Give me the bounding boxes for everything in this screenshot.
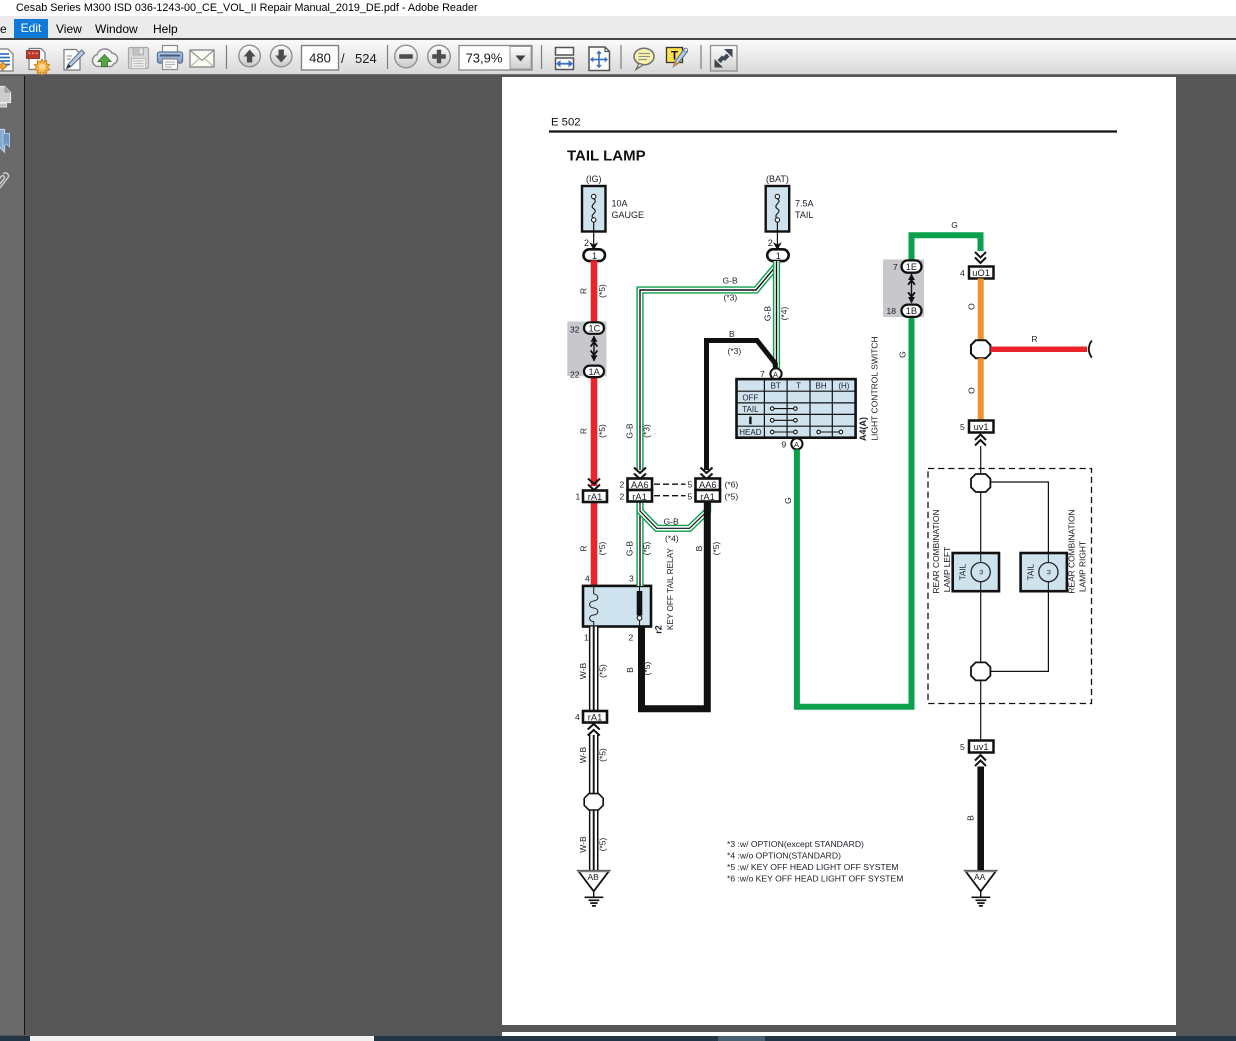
svg-text:(*5): (*5) (711, 541, 721, 555)
svg-text:(*6): (*6) (725, 480, 739, 490)
svg-text:BT: BT (771, 382, 781, 391)
svg-text:TAIL: TAIL (959, 563, 968, 580)
svg-text:2: 2 (584, 238, 589, 248)
svg-text:E 502: E 502 (551, 117, 581, 129)
svg-text:2: 2 (620, 480, 625, 490)
svg-text:AA: AA (974, 872, 986, 882)
svg-text:3: 3 (629, 574, 634, 584)
svg-text:ω: ω (978, 570, 985, 575)
svg-text:(*4): (*4) (779, 306, 789, 320)
svg-text:OFF: OFF (742, 393, 758, 402)
svg-text:7: 7 (760, 369, 765, 379)
svg-text:B: B (729, 329, 735, 339)
svg-text:A: A (794, 440, 799, 449)
svg-text:*5 :w/ KEY OFF HEAD LIGHT OFF: *5 :w/ KEY OFF HEAD LIGHT OFF SYSTEM (727, 862, 899, 872)
svg-text:A4(A): A4(A) (858, 417, 868, 441)
svg-text:AB: AB (588, 872, 600, 882)
svg-text:O: O (967, 303, 977, 310)
svg-text:(*5): (*5) (598, 664, 608, 678)
svg-text:G: G (783, 497, 793, 504)
svg-text:r2: r2 (654, 625, 664, 634)
svg-text:uO1: uO1 (972, 268, 990, 278)
svg-text:G-B: G-B (763, 306, 773, 321)
svg-text:1A: 1A (589, 367, 601, 377)
svg-text:(IG): (IG) (586, 174, 602, 184)
svg-text:(*4): (*4) (665, 534, 679, 544)
svg-text:(*3): (*3) (724, 293, 738, 303)
svg-text:*3 :w/ OPTION(except STANDARD): *3 :w/ OPTION(except STANDARD) (727, 839, 864, 849)
svg-text:18: 18 (887, 306, 897, 316)
svg-text:73,9%: 73,9% (466, 51, 503, 66)
svg-text:O: O (967, 387, 977, 394)
svg-text:1: 1 (592, 251, 597, 261)
svg-text:2: 2 (620, 492, 625, 502)
svg-text:rA1: rA1 (700, 492, 714, 502)
svg-text:9: 9 (782, 440, 787, 450)
svg-text:G-B: G-B (723, 276, 738, 286)
svg-text:22: 22 (570, 370, 580, 380)
svg-text:480: 480 (309, 51, 331, 66)
svg-text:AA6: AA6 (699, 480, 717, 490)
svg-text:(*3): (*3) (728, 346, 742, 356)
svg-text:10A: 10A (612, 199, 628, 209)
svg-text:TAIL LAMP: TAIL LAMP (567, 148, 646, 165)
svg-text:B: B (625, 667, 635, 673)
svg-text:G-B: G-B (625, 541, 635, 556)
svg-text:5: 5 (688, 480, 693, 490)
svg-text:(*5): (*5) (642, 661, 652, 675)
svg-text:4: 4 (585, 574, 590, 584)
svg-text:LAMP LEFT: LAMP LEFT (942, 547, 952, 592)
svg-text:7: 7 (893, 262, 898, 272)
svg-text:/: / (341, 51, 345, 66)
svg-text:R: R (579, 428, 589, 434)
svg-text:uv1: uv1 (974, 742, 989, 752)
svg-text:(BAT): (BAT) (766, 174, 789, 184)
svg-text:5: 5 (688, 492, 693, 502)
svg-text:TAIL: TAIL (795, 210, 813, 220)
svg-text:B: B (966, 815, 976, 821)
svg-text:REAR COMBINATION: REAR COMBINATION (1067, 509, 1077, 593)
svg-text:ω: ω (1046, 570, 1053, 575)
svg-text:REAR COMBINATION: REAR COMBINATION (931, 509, 941, 593)
svg-text:AA6: AA6 (631, 480, 649, 490)
svg-text:1: 1 (776, 251, 781, 261)
svg-text:R: R (579, 545, 589, 551)
svg-text:(H): (H) (838, 382, 849, 391)
svg-text:rA1: rA1 (588, 713, 602, 723)
svg-text:W-B: W-B (578, 662, 588, 679)
svg-text:32: 32 (570, 325, 580, 335)
svg-text:4: 4 (960, 268, 965, 278)
svg-text:G-B: G-B (664, 517, 679, 527)
svg-text:W-B: W-B (578, 836, 588, 853)
svg-text:1: 1 (576, 492, 581, 502)
svg-text:5: 5 (960, 422, 965, 432)
svg-text:2: 2 (768, 238, 773, 248)
svg-text:(*5): (*5) (597, 424, 607, 438)
svg-text:W-B: W-B (578, 746, 588, 763)
svg-text:LAMP RIGHT: LAMP RIGHT (1077, 541, 1087, 592)
svg-text:GAUGE: GAUGE (612, 210, 645, 220)
svg-text:B: B (694, 545, 704, 551)
svg-text:G: G (898, 351, 908, 358)
svg-text:T: T (796, 382, 801, 391)
svg-text:1E: 1E (906, 262, 917, 272)
svg-text:(*5): (*5) (598, 748, 608, 762)
svg-text:(*5): (*5) (642, 541, 652, 555)
svg-text:2: 2 (629, 633, 634, 643)
svg-text:KEY OFF TAIL RELAY: KEY OFF TAIL RELAY (666, 548, 675, 630)
svg-text:5: 5 (960, 742, 965, 752)
svg-text:R: R (579, 288, 589, 294)
svg-text:(*5): (*5) (598, 837, 608, 851)
svg-text:(*5): (*5) (725, 492, 739, 502)
svg-text:524: 524 (355, 51, 377, 66)
svg-text:LIGHT CONTROL SWITCH: LIGHT CONTROL SWITCH (870, 336, 880, 440)
svg-text:TAIL: TAIL (1026, 563, 1035, 580)
svg-text:4: 4 (575, 712, 580, 722)
svg-text:HEAD: HEAD (739, 428, 761, 437)
svg-text:(*3): (*3) (642, 424, 652, 438)
svg-text:A: A (773, 370, 778, 379)
svg-text:BH: BH (816, 382, 827, 391)
svg-text:(*5): (*5) (597, 284, 607, 298)
svg-text:1: 1 (584, 633, 589, 643)
svg-text:rA1: rA1 (588, 492, 602, 502)
svg-text:(*5): (*5) (597, 541, 607, 555)
svg-text:rA1: rA1 (632, 492, 646, 502)
svg-text:G-B: G-B (625, 423, 635, 438)
svg-text:R: R (1031, 334, 1037, 344)
svg-text:7.5A: 7.5A (795, 199, 814, 209)
svg-text:1C: 1C (589, 324, 601, 334)
svg-text:TAIL: TAIL (742, 405, 759, 414)
svg-text:uv1: uv1 (974, 422, 989, 432)
svg-text:1B: 1B (906, 306, 917, 316)
svg-text:*6 :w/o KEY OFF HEAD LIGHT OFF: *6 :w/o KEY OFF HEAD LIGHT OFF SYSTEM (727, 874, 903, 884)
svg-text:G: G (951, 220, 958, 230)
svg-text:*4 :w/o OPTION(STANDARD): *4 :w/o OPTION(STANDARD) (727, 851, 841, 861)
